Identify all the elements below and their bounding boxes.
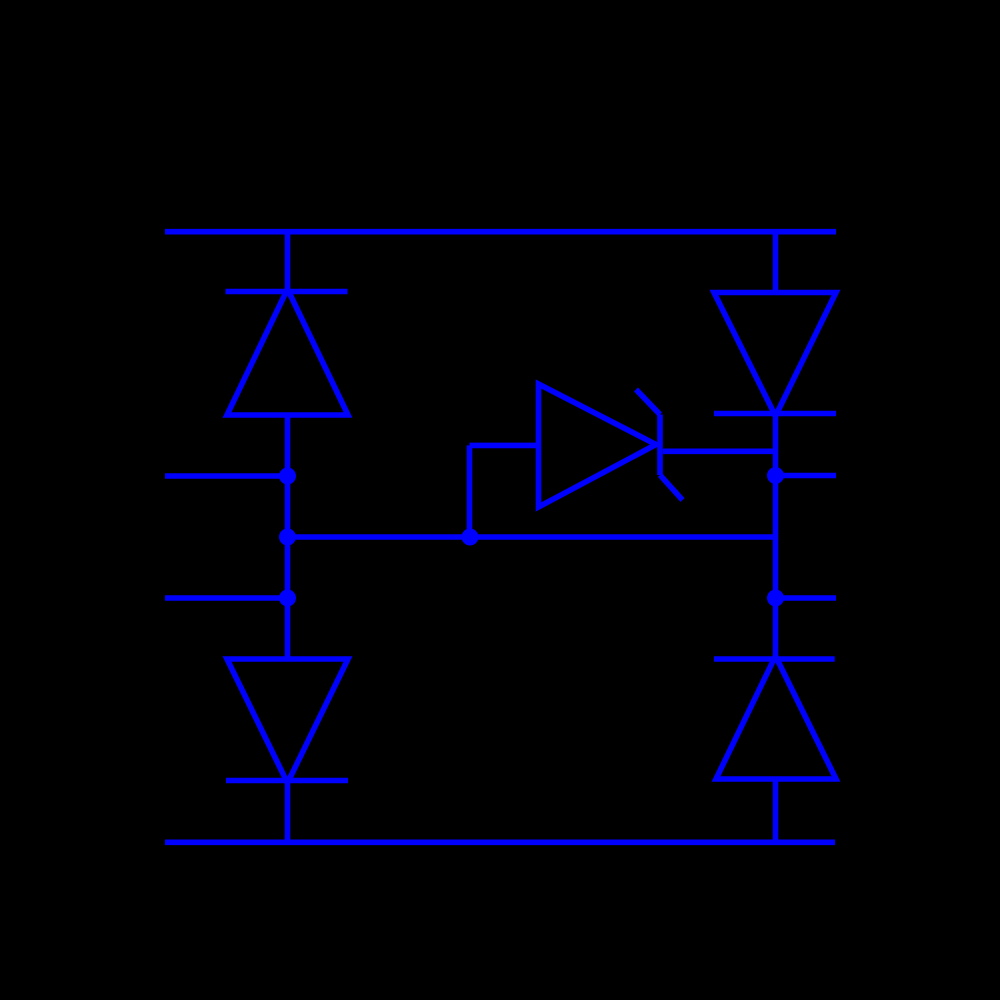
zener diode Z1 (TVS, pointing right): [539, 384, 683, 507]
wire bottom bus (negative rail): [165, 839, 835, 845]
wire D4 anode lead: [773, 779, 779, 842]
junction dot node B (left, y=536.5): [279, 529, 296, 546]
junction dot node D (right, y=475.5): [767, 467, 784, 484]
wire D1 cathode lead: [285, 232, 291, 294]
wire zener anode lead (horizontal): [470, 443, 540, 449]
wire D2 anode lead: [773, 232, 779, 294]
wire zener anode stub (vertical): [467, 445, 473, 537]
junction dot node A (left, y=476): [279, 468, 296, 485]
wire middle bus (node B to right column): [288, 534, 776, 540]
wire stub IO4 (right, y=598): [776, 595, 837, 601]
junction dot node E (right, y=598): [767, 590, 784, 607]
diode D4 (cathode up): [714, 656, 836, 779]
diode D1 (cathode up): [226, 289, 349, 415]
wire stub IO3 (right, y=475.5): [776, 473, 837, 479]
wire D3 cathode lead: [285, 781, 291, 843]
wire zener cathode lead (horizontal): [663, 448, 776, 454]
diode D3 (cathode down): [226, 659, 348, 783]
junction dot node F (middle bus, x=470): [462, 529, 479, 546]
wire D2 cathode to right column: [773, 414, 779, 662]
wire D1 anode to node column: [285, 415, 291, 661]
wire stub IO2 (left, y=598): [165, 595, 288, 601]
wire top bus (positive rail): [165, 229, 836, 235]
diode D2 (cathode down): [714, 293, 836, 417]
wire stub IO1 (left, y=476): [165, 473, 288, 479]
junction dot node C (left, y=598): [279, 590, 296, 607]
